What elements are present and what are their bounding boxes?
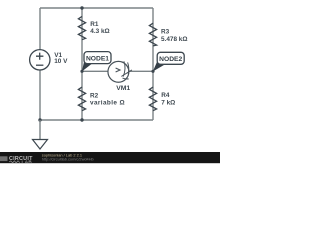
label R4 value [161, 92, 175, 106]
wire right branch R3-R4 [152, 8, 154, 120]
svg-text:5.478 kΩ: 5.478 kΩ [161, 36, 187, 43]
resistor R2 [78, 87, 85, 111]
label V1 value [54, 52, 68, 65]
wire voltmeter row [82, 70, 153, 72]
svg-text:R4: R4 [161, 92, 170, 99]
label R1 value [90, 21, 109, 35]
label R2 value [90, 93, 125, 107]
watermark bar [0, 152, 220, 163]
svg-text:R2: R2 [90, 93, 99, 100]
svg-text:NODE2: NODE2 [159, 56, 182, 63]
watermark logo zigzag [9, 161, 20, 163]
resistor R4 [149, 87, 156, 111]
wire bottom rail [40, 119, 153, 121]
node NODE2 flag [153, 52, 184, 71]
junction dot node2 [151, 70, 154, 73]
voltage source V1 [30, 50, 50, 70]
junction dot top [80, 6, 83, 9]
svg-text:4.3 kΩ: 4.3 kΩ [90, 28, 109, 35]
svg-text:R3: R3 [161, 29, 170, 36]
junction dot bottom middle [80, 118, 83, 121]
node NODE1 flag [82, 52, 111, 72]
svg-text:NODE1: NODE1 [86, 55, 109, 62]
junction dot bottom left [38, 118, 41, 121]
label R3 value [161, 29, 187, 43]
wire middle branch R1-R2 [81, 8, 83, 120]
wire top rail [40, 7, 153, 9]
svg-text:variable Ω: variable Ω [90, 100, 125, 107]
watermark logo left mark [0, 156, 8, 161]
junction dot node1 [80, 70, 83, 73]
voltmeter VM1 [108, 61, 132, 82]
svg-text:http://circuitlab.com/c/2wd4Hb: http://circuitlab.com/c/2wd4Hb [42, 156, 94, 161]
wire left rail [39, 8, 41, 120]
resistor R1 [78, 16, 85, 39]
svg-text:7 kΩ: 7 kΩ [161, 99, 175, 106]
svg-text:LAB: LAB [22, 159, 33, 164]
svg-text:VM1: VM1 [116, 85, 130, 92]
resistor R3 [149, 23, 156, 46]
svg-text:10 V: 10 V [54, 58, 68, 65]
ground [39, 120, 41, 140]
